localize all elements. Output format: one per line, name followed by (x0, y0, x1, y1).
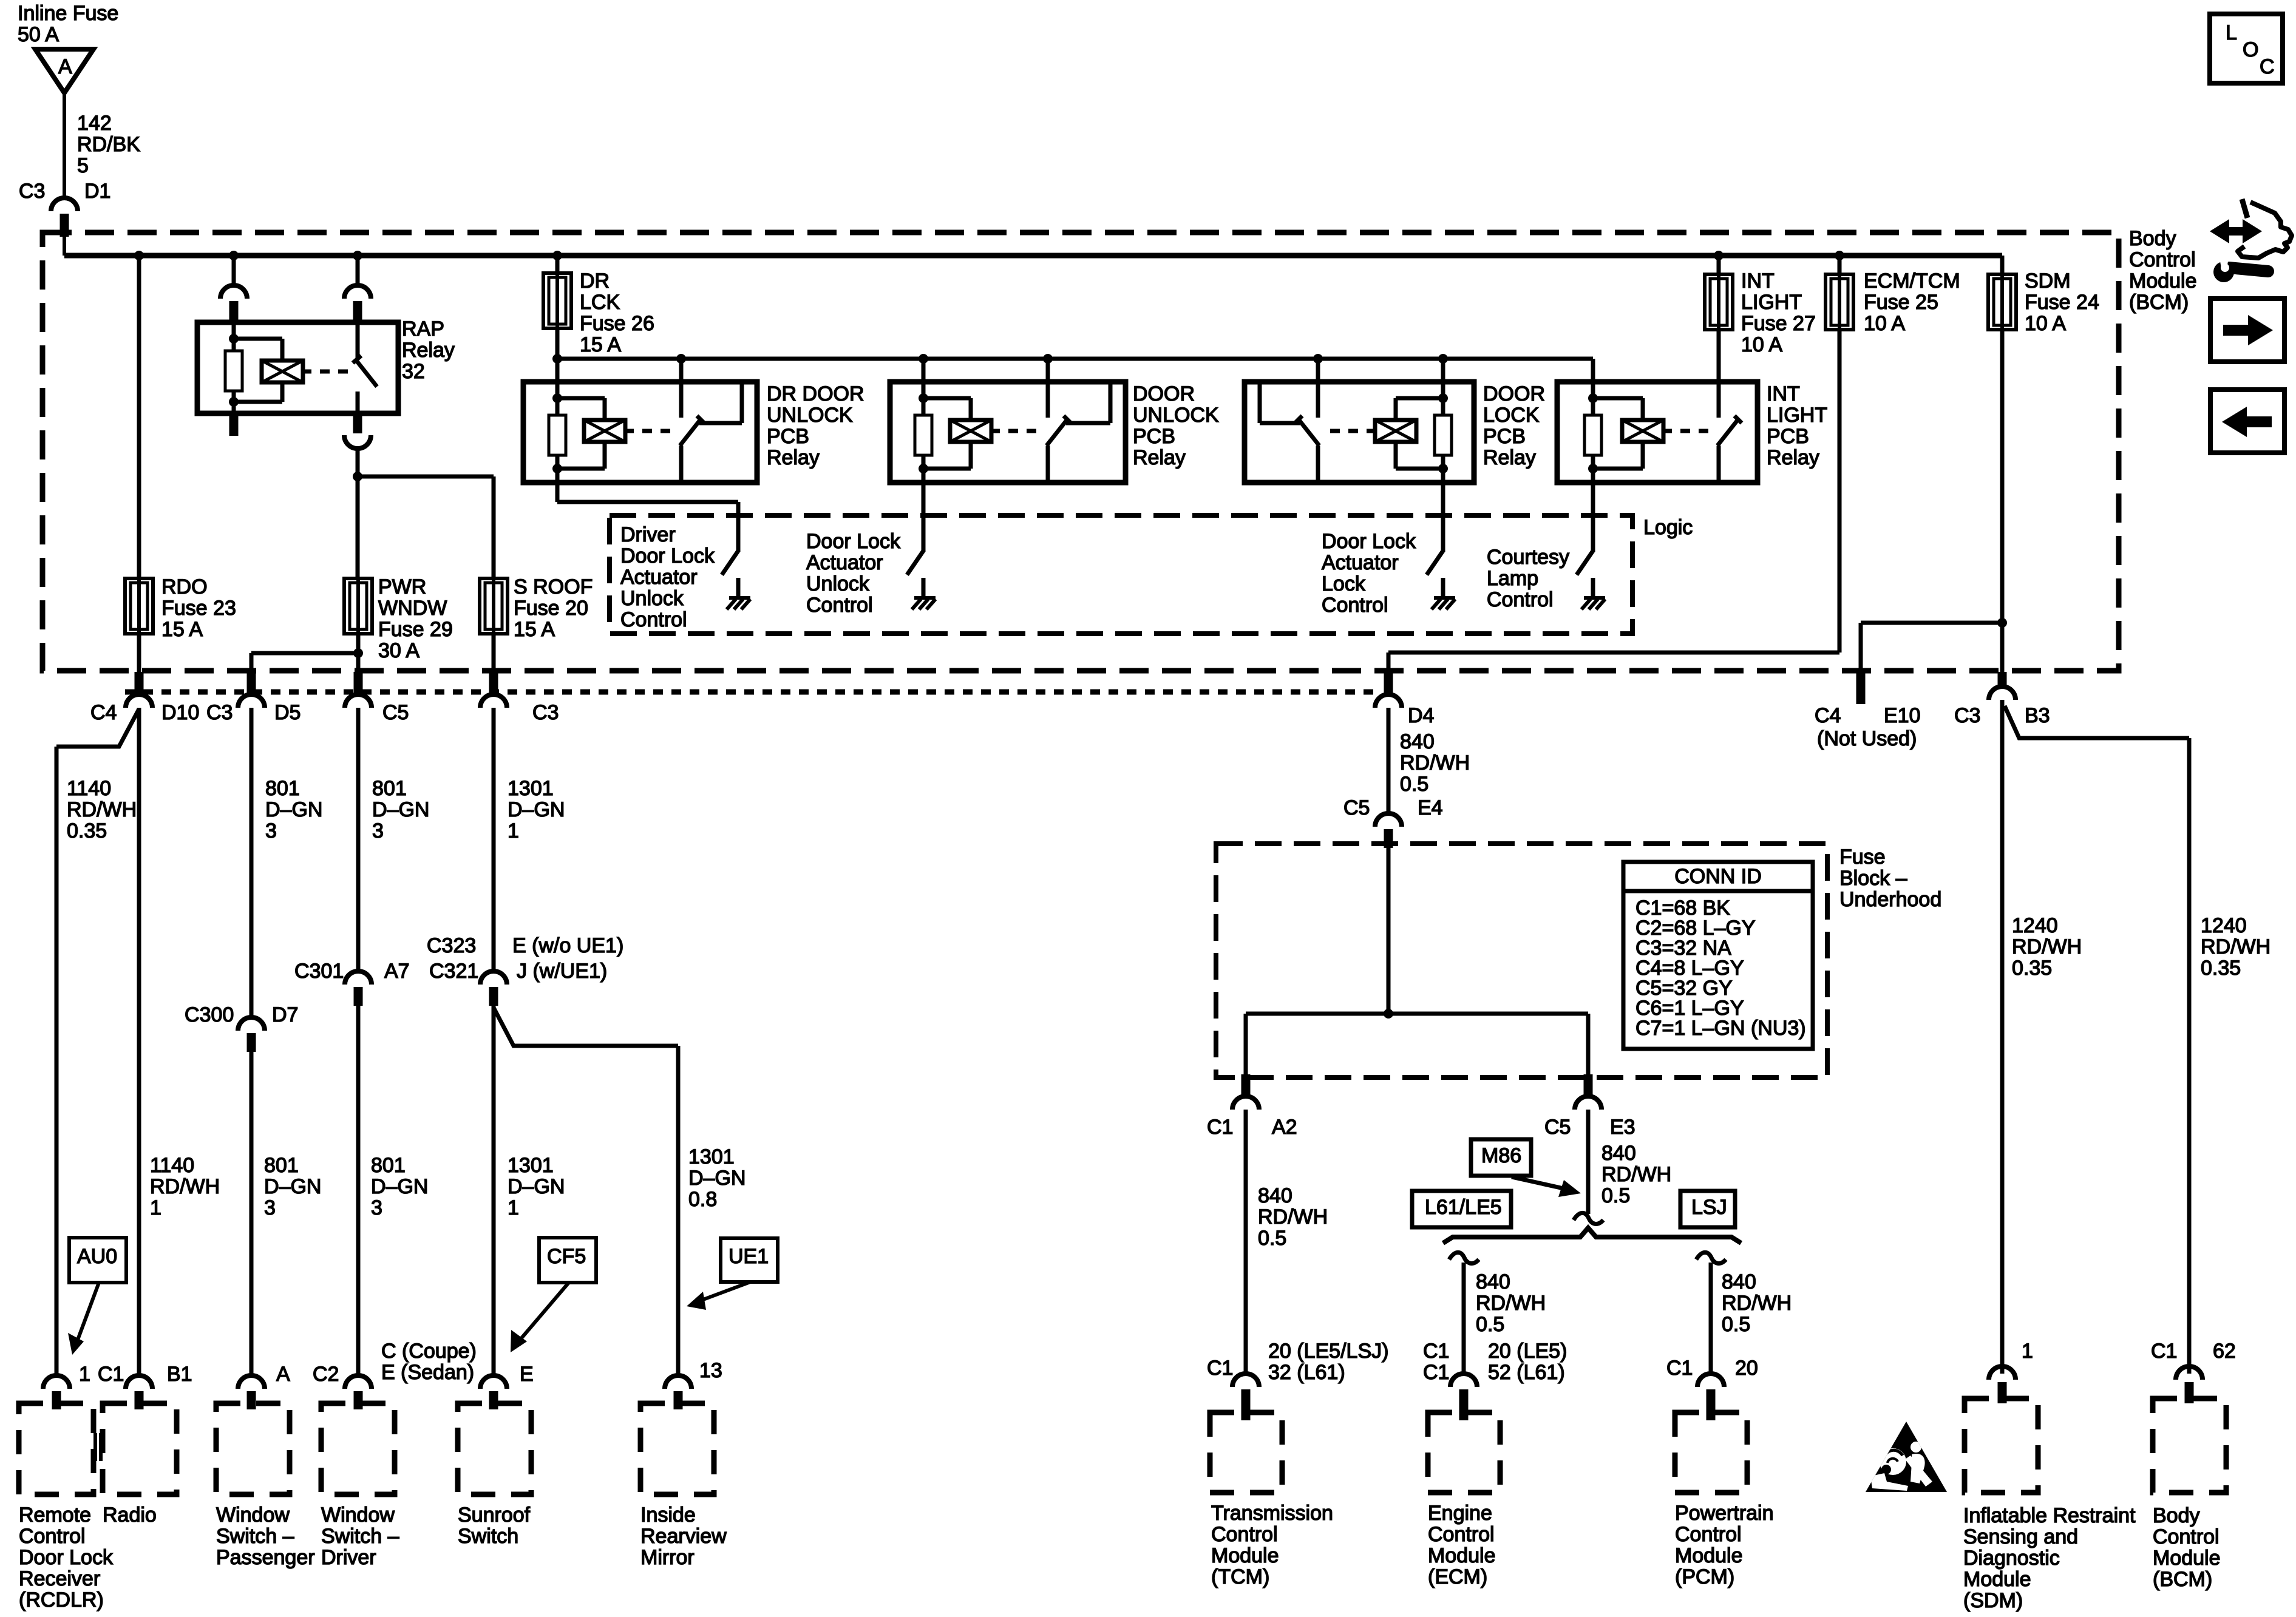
labels C4 D10 C3 D5 C5 C3 (90, 701, 559, 724)
svg-text:M86: M86 (1481, 1144, 1521, 1167)
connector C5/E4 (1375, 813, 1402, 848)
svg-text:UNLOCK: UNLOCK (1133, 404, 1219, 427)
svg-text:Body: Body (2129, 227, 2176, 250)
fuse S ROOF Fuse 20 (480, 578, 508, 634)
label Radio (103, 1503, 157, 1527)
svg-text:Control: Control (19, 1525, 86, 1548)
module box Window Switch Passenger (216, 1403, 290, 1494)
svg-text:C1: C1 (1423, 1361, 1449, 1384)
svg-text:Switch –: Switch – (216, 1525, 294, 1548)
svg-text:SDM: SDM (2025, 269, 2071, 293)
connector at SDM (1989, 1366, 2016, 1403)
svg-text:1301: 1301 (688, 1145, 735, 1168)
wire to RAP relay switch (356, 256, 360, 285)
wire below DR LCK fuse (555, 328, 560, 359)
svg-text:Driver: Driver (321, 1546, 376, 1569)
connector C3/B3 (1989, 672, 2016, 704)
switch Driver Door Lock Actuator Unlock Control + ground (722, 550, 750, 609)
svg-text:10 A: 10 A (1864, 312, 1905, 335)
svg-text:C5: C5 (1544, 1116, 1571, 1139)
svg-text:Module: Module (1211, 1544, 1279, 1567)
svg-text:(Not Used): (Not Used) (1817, 727, 1917, 750)
svg-text:RD/BK: RD/BK (77, 133, 140, 156)
label INT LIGHT Fuse 27 10 A (1741, 269, 1816, 356)
svg-text:1: 1 (150, 1196, 161, 1219)
svg-text:WNDW: WNDW (378, 597, 447, 620)
connector label D1 (84, 180, 110, 203)
label ECM (1428, 1502, 1496, 1588)
wire SDM fuse down (2000, 330, 2005, 672)
relay DR DOOR UNLOCK PCB Relay (523, 382, 757, 483)
wire below RDO fuse (137, 634, 141, 672)
svg-text:840: 840 (1400, 730, 1435, 753)
svg-text:RAP: RAP (402, 317, 444, 341)
svg-text:E4: E4 (1418, 796, 1443, 819)
svg-text:1140: 1140 (67, 777, 111, 800)
svg-text:Relay: Relay (1767, 446, 1819, 469)
svg-text:RD/WH: RD/WH (2201, 935, 2271, 958)
connector C3 sunroof at BCM (480, 672, 507, 711)
svg-text:32 (L61): 32 (L61) (1268, 1361, 1345, 1384)
svg-text:C1: C1 (1666, 1357, 1693, 1380)
connector at module wire x=813 (480, 1375, 507, 1409)
wire label 840 RD/WH 0.5 (D4) (1400, 730, 1470, 796)
labels C1 A2 (1207, 1116, 1297, 1139)
svg-text:PCB: PCB (767, 425, 809, 448)
wire brace to PCM (1709, 1263, 1713, 1374)
svg-text:Fuse 24: Fuse 24 (2025, 291, 2099, 314)
svg-text:D–GN: D–GN (688, 1167, 746, 1190)
connector at module wire x=93 (43, 1375, 70, 1409)
inline fuse A (triangle symbol) (35, 49, 93, 93)
wire C1/A2 to TCM (1244, 1114, 1248, 1374)
svg-text:Remote: Remote (19, 1503, 91, 1527)
connector C323/C321 (480, 971, 507, 1006)
link bars RCDLR-Radio (95, 1433, 101, 1461)
labels C300 D7 (185, 1003, 298, 1026)
svg-text:840: 840 (1722, 1270, 1756, 1293)
svg-text:C300: C300 (185, 1003, 234, 1026)
svg-text:Passenger: Passenger (216, 1546, 315, 1569)
wire bus to relay3 coil (1441, 359, 1445, 382)
svg-text:LSJ: LSJ (1691, 1196, 1727, 1219)
svg-text:0.5: 0.5 (1722, 1313, 1750, 1336)
svg-text:LOCK: LOCK (1483, 404, 1540, 427)
svg-text:10 A: 10 A (2025, 312, 2066, 335)
svg-text:142: 142 (77, 112, 112, 135)
svg-text:(BCM): (BCM) (2153, 1568, 2212, 1591)
svg-text:Actuator: Actuator (620, 566, 698, 589)
svg-text:Diagnostic: Diagnostic (1963, 1547, 2060, 1570)
svg-text:15 A: 15 A (161, 618, 203, 641)
relay RAP Relay 32 (197, 322, 398, 413)
svg-text:Fuse 26: Fuse 26 (580, 312, 654, 335)
svg-text:Fuse 27: Fuse 27 (1741, 312, 1816, 335)
pin labels TCM (1207, 1340, 1388, 1384)
svg-text:D1: D1 (84, 180, 110, 203)
svg-text:0.5: 0.5 (1476, 1313, 1504, 1336)
wire label 1301 D-GN 1 lower (508, 1154, 565, 1219)
svg-text:E: E (520, 1363, 534, 1386)
svg-text:3: 3 (371, 1196, 382, 1219)
RAP relay output stub + connector (344, 413, 371, 476)
svg-text:RD/WH: RD/WH (1601, 1163, 1671, 1186)
module box Inflatable Restraint SDM (1965, 1398, 2038, 1493)
connector at module wire x=1117 (665, 1375, 691, 1409)
brace splice symbol (1443, 1228, 1741, 1243)
fuse SDM Fuse 24 (1988, 256, 2016, 330)
svg-text:1301: 1301 (508, 777, 554, 800)
BCM connector row dotted line (125, 690, 1375, 695)
svg-text:1140: 1140 (150, 1154, 194, 1177)
svg-text:D4: D4 (1408, 704, 1434, 727)
wire RCDLR branch from C4 (56, 709, 139, 1375)
svg-text:Engine: Engine (1428, 1502, 1492, 1525)
label SDM module (1963, 1504, 2136, 1612)
svg-text:Window: Window (216, 1503, 290, 1527)
svg-text:Fuse 23: Fuse 23 (161, 597, 236, 620)
connector at BCM module (2176, 1366, 2203, 1403)
svg-text:Door Lock: Door Lock (806, 530, 901, 553)
svg-text:Fuse: Fuse (1839, 846, 1886, 869)
svg-text:3: 3 (265, 819, 277, 842)
RAP relay coil-low stub (unused) (229, 413, 239, 436)
svg-text:(ECM): (ECM) (1428, 1565, 1487, 1588)
fuse PWR WNDW Fuse 29 (344, 578, 372, 634)
svg-text:S ROOF: S ROOF (514, 575, 593, 598)
junction dot DR LCK output (552, 354, 562, 364)
label Courtesy Lamp Control (1487, 546, 1569, 611)
svg-text:Receiver: Receiver (19, 1567, 100, 1590)
label RDO Fuse 23 15 A (161, 575, 236, 641)
svg-text:Transmission: Transmission (1211, 1502, 1333, 1525)
wire sunroof lower (492, 1006, 496, 1375)
svg-text:0.35: 0.35 (2012, 957, 2052, 980)
wire INT LIGHT fuse to relay4 switch (1717, 330, 1721, 382)
svg-text:A7: A7 (384, 960, 410, 983)
svg-text:801: 801 (372, 777, 407, 800)
connector at module wire x=229 (126, 1375, 152, 1409)
connector label C3 (19, 180, 45, 203)
switch Courtesy Lamp Control + ground (1577, 550, 1605, 609)
svg-text:INT: INT (1767, 382, 1800, 405)
svg-text:D–GN: D–GN (371, 1175, 428, 1198)
svg-text:1: 1 (508, 1196, 519, 1219)
svg-text:RD/WH: RD/WH (150, 1175, 220, 1198)
svg-text:840: 840 (1258, 1184, 1292, 1207)
svg-text:801: 801 (265, 777, 300, 800)
label DR DOOR UNLOCK PCB Relay (767, 382, 864, 469)
module box Radio (103, 1403, 177, 1494)
svg-text:(PCM): (PCM) (1675, 1565, 1734, 1588)
module box Body Control Module bottom (2153, 1398, 2226, 1493)
svg-text:E (Sedan): E (Sedan) (381, 1361, 474, 1384)
relay feed bus wire (557, 357, 1593, 361)
label Sunroof Switch (458, 1503, 531, 1548)
svg-text:C4: C4 (1815, 704, 1841, 727)
svg-text:DOOR: DOOR (1133, 382, 1195, 405)
pin labels PCM (1666, 1357, 1758, 1380)
wire label 840 RD/WH 0.5 (ECM) (1476, 1270, 1546, 1336)
label Window Switch Driver (321, 1503, 399, 1569)
connector at module wire x=414 (238, 1375, 265, 1409)
svg-text:INT: INT (1741, 269, 1775, 293)
svg-text:20: 20 (1735, 1357, 1758, 1380)
svg-text:1240: 1240 (2201, 914, 2247, 937)
label Inside Rearview Mirror (640, 1503, 727, 1569)
svg-text:1: 1 (79, 1363, 90, 1386)
svg-text:5: 5 (77, 154, 89, 177)
svg-text:Door Lock: Door Lock (620, 544, 715, 568)
svg-text:DR: DR (580, 269, 610, 293)
svg-text:Control: Control (620, 608, 687, 631)
svg-text:Control: Control (2153, 1525, 2220, 1548)
option box L61/LE5 (1412, 1191, 1511, 1227)
relay INT LIGHT PCB Relay (1557, 382, 1758, 483)
svg-text:C321: C321 (429, 960, 478, 983)
svg-text:Actuator: Actuator (1322, 551, 1399, 574)
wire to DR LCK fuse (555, 256, 560, 273)
svg-text:C: C (2260, 55, 2275, 78)
svg-text:13: 13 (699, 1359, 722, 1382)
svg-text:0.8: 0.8 (688, 1188, 717, 1211)
connector at control module x=2411 (1450, 1374, 1477, 1420)
wire ECM/TCM fuse down and left to D4 (1388, 330, 1839, 672)
svg-text:RD/WH: RD/WH (67, 798, 137, 821)
wire label 801 D-GN 3 lower driver (371, 1154, 428, 1219)
label Logic (1643, 516, 1693, 539)
svg-text:840: 840 (1601, 1142, 1636, 1165)
wire bus to relay1 coil (555, 359, 560, 382)
wire label 840 RD/WH 0.5 (PCM) (1722, 1270, 1792, 1336)
wire relay feed bus drop to INT LIGHT relay coil (1591, 359, 1595, 382)
svg-text:Door Lock: Door Lock (1322, 530, 1416, 553)
svg-text:(SDM): (SDM) (1963, 1589, 2023, 1612)
svg-text:D–GN: D–GN (264, 1175, 321, 1198)
labels C4 E10 (Not Used) (1815, 704, 1921, 750)
relay DOOR UNLOCK PCB Relay (890, 382, 1126, 483)
module box Inside Rearview Mirror (640, 1403, 714, 1494)
wire 142 RD/BK from inline fuse (63, 93, 66, 198)
svg-text:PCB: PCB (1767, 425, 1809, 448)
wire brace to ECM (1462, 1263, 1466, 1374)
connector repair icon (arrow + wrench) (2210, 199, 2292, 282)
svg-text:D–GN: D–GN (372, 798, 429, 821)
break symbol at E3 wire end (1574, 1213, 1603, 1224)
svg-text:PCB: PCB (1483, 425, 1526, 448)
svg-text:C (Coupe): C (Coupe) (381, 1340, 477, 1363)
svg-text:Switch –: Switch – (321, 1525, 399, 1548)
option box AU0 with arrow (68, 1238, 126, 1355)
labels C5 E3 (1544, 1116, 1635, 1139)
label D4 (1408, 704, 1434, 727)
svg-text:D–GN: D–GN (508, 798, 565, 821)
label Fuse Block - Underhood (1839, 846, 1941, 911)
fuse block internal branch wire (1246, 1014, 1588, 1077)
wire label 840 RD/WH 0.5 (E3) (1601, 1142, 1671, 1207)
connector C301/A7 (345, 971, 372, 1006)
break symbol right branch (1696, 1252, 1726, 1263)
wire label 801 D-GN 3 (passenger) (265, 777, 322, 842)
wire below S ROOF fuse (492, 634, 496, 672)
svg-text:J (w/UE1): J (w/UE1) (517, 960, 607, 983)
connector C3/D1 (51, 198, 78, 256)
labels C323 C321 E J (427, 934, 623, 983)
svg-text:E10: E10 (1884, 704, 1921, 727)
connector at control module x=2818 (1697, 1374, 1724, 1420)
svg-text:15 A: 15 A (514, 618, 555, 641)
connector C3/D5 at BCM (238, 672, 265, 711)
svg-text:E3: E3 (1610, 1116, 1635, 1139)
svg-text:Module: Module (1428, 1544, 1496, 1567)
break symbol left branch (1449, 1252, 1479, 1263)
pin labels ECM (1423, 1340, 1567, 1384)
label DR LCK Fuse 26 15 A (580, 269, 654, 356)
wire label 1140 RD/WH 1 (150, 1154, 220, 1219)
label S ROOF Fuse 20 15 A (514, 575, 593, 641)
svg-text:RD/WH: RD/WH (1722, 1292, 1792, 1315)
wire relay1 coil-low to logic switch (557, 483, 738, 551)
svg-text:PWR: PWR (378, 575, 426, 598)
switch Door Lock Actuator Lock Control + ground (1427, 550, 1455, 609)
svg-text:C4: C4 (90, 701, 117, 724)
svg-text:Module: Module (1963, 1568, 2031, 1591)
svg-text:Body: Body (2153, 1504, 2200, 1527)
svg-text:UE1: UE1 (729, 1245, 769, 1268)
svg-text:1: 1 (2022, 1340, 2033, 1363)
svg-text:Control: Control (1487, 588, 1554, 611)
wire label 1301 D-GN 1 (508, 777, 565, 842)
relay DOOR LOCK PCB Relay (1245, 382, 1474, 483)
option box CF5 with arrow (511, 1238, 596, 1352)
svg-text:Courtesy: Courtesy (1487, 546, 1569, 569)
fuse RDO Fuse 23 (125, 578, 153, 634)
svg-text:0.35: 0.35 (2201, 957, 2241, 980)
svg-text:1240: 1240 (2012, 914, 2058, 937)
svg-text:(RCDLR): (RCDLR) (19, 1588, 104, 1612)
svg-text:D10: D10 (161, 701, 199, 724)
svg-text:Inside: Inside (640, 1503, 696, 1527)
wire window switch driver upper (356, 709, 361, 971)
svg-text:LIGHT: LIGHT (1767, 404, 1827, 427)
svg-text:(TCM): (TCM) (1211, 1565, 1269, 1588)
svg-text:C3: C3 (206, 701, 233, 724)
svg-text:C1: C1 (2151, 1340, 2177, 1363)
label RAP Relay 32 (402, 317, 455, 383)
connector D4 at BCM (1375, 672, 1402, 711)
label Window Switch Passenger (216, 1503, 315, 1569)
svg-text:Fuse 20: Fuse 20 (514, 597, 588, 620)
junction dots on relay feed bus (676, 354, 1448, 364)
svg-text:Radio: Radio (103, 1503, 157, 1527)
BCM label (2129, 227, 2197, 314)
pin labels SDM BCM (2022, 1340, 2236, 1363)
module box Sunroof Switch (458, 1403, 531, 1494)
svg-text:Module: Module (1675, 1544, 1743, 1567)
svg-text:Relay: Relay (402, 339, 455, 362)
svg-text:20 (LE5): 20 (LE5) (1488, 1340, 1567, 1363)
svg-text:Unlock: Unlock (806, 572, 870, 595)
label PCM (1675, 1502, 1774, 1588)
module box Transmission Control Module (TCM) (1210, 1412, 1282, 1493)
svg-text:Actuator: Actuator (806, 551, 883, 574)
svg-text:D–GN: D–GN (265, 798, 322, 821)
wire label 1240 RD/WH 0.35 (SDM) (2012, 914, 2082, 980)
svg-text:RDO: RDO (161, 575, 208, 598)
svg-text:RD/WH: RD/WH (1400, 751, 1470, 775)
svg-text:50 A: 50 A (18, 23, 59, 46)
connector at control module x=2052 (1232, 1374, 1259, 1420)
wire label 142 RD/BK 5 (77, 112, 140, 177)
label DOOR UNLOCK PCB Relay (1133, 382, 1219, 469)
connector at module wire x=590 (345, 1375, 372, 1409)
svg-text:C323: C323 (427, 934, 476, 957)
svg-text:C3: C3 (19, 180, 45, 203)
svg-text:C5: C5 (382, 701, 409, 724)
option box M86 with arrow (1471, 1139, 1581, 1197)
labels C3 B3 (1954, 704, 2050, 727)
connector C300/D7 (238, 1017, 265, 1052)
module box Remote Control Door Lock Receiver (RCDLR) (19, 1403, 93, 1494)
svg-text:0.35: 0.35 (67, 819, 107, 842)
svg-text:Relay: Relay (1483, 446, 1536, 469)
svg-text:C1: C1 (1423, 1340, 1449, 1363)
label ECM/TCM Fuse 25 10 A (1864, 269, 1960, 335)
connector C1/A2 (1232, 1074, 1259, 1114)
wire sunroof upper (492, 709, 496, 971)
svg-text:C1: C1 (98, 1363, 124, 1386)
svg-text:Underhood: Underhood (1839, 888, 1941, 911)
svg-text:10 A: 10 A (1741, 333, 1782, 356)
connector on RAP switch feed (344, 285, 371, 320)
wire branch to inside rearview mirror (494, 1008, 678, 1375)
wire RAP output to S ROOF fuse (358, 476, 494, 578)
wire bus to relay1 switch (679, 359, 684, 382)
svg-text:30 A: 30 A (378, 639, 419, 662)
svg-text:C7=1 L–GN (NU3): C7=1 L–GN (NU3) (1635, 1017, 1806, 1040)
svg-text:C1: C1 (1207, 1116, 1233, 1139)
svg-text:E (w/o UE1): E (w/o UE1) (512, 934, 623, 957)
svg-text:3: 3 (264, 1196, 276, 1219)
svg-text:DR DOOR: DR DOOR (767, 382, 864, 405)
svg-text:RD/WH: RD/WH (2012, 935, 2082, 958)
CONN ID table (1623, 862, 1813, 1049)
junction dot SDM branch (1997, 618, 2007, 628)
svg-text:Powertrain: Powertrain (1675, 1502, 1774, 1525)
fuse INT LIGHT Fuse 27 (1705, 274, 1733, 330)
label INT LIGHT PCB Relay (1767, 382, 1827, 469)
svg-text:DOOR: DOOR (1483, 382, 1545, 405)
label Door Lock Actuator Lock Control (1322, 530, 1416, 617)
switch Door Lock Actuator Unlock Control + ground (907, 550, 936, 609)
label RCDLR (19, 1503, 114, 1612)
label TCM (1211, 1502, 1333, 1588)
svg-text:Relay: Relay (1133, 446, 1186, 469)
svg-text:Mirror: Mirror (640, 1546, 695, 1569)
wire bus to relay2 coil (922, 359, 926, 382)
svg-text:840: 840 (1476, 1270, 1510, 1293)
wire RAP output to PWR WNDW fuse (356, 476, 360, 578)
svg-text:15 A: 15 A (580, 333, 621, 356)
wire label 1301 D-GN 0.8 (688, 1145, 746, 1211)
svg-text:UNLOCK: UNLOCK (767, 404, 853, 427)
connector on RAP coil feed (220, 285, 247, 320)
svg-text:Inline Fuse: Inline Fuse (18, 2, 118, 25)
svg-text:Control: Control (1428, 1523, 1495, 1546)
svg-text:Fuse 29: Fuse 29 (378, 618, 453, 641)
label SDM Fuse 24 10 A (2025, 269, 2099, 335)
wire bus to relay2 switch (1046, 359, 1050, 382)
